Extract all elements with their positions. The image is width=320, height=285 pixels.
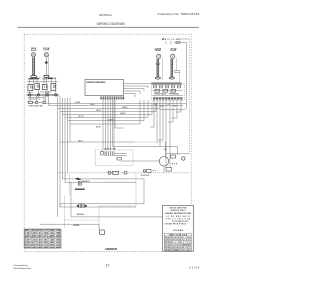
svg-text:18F: 18F (56, 247, 61, 249)
svg-text:LF 8IN: LF 8IN (44, 50, 50, 52)
svg-text:DK BU: DK BU (96, 127, 101, 129)
svg-text:SEE NOTE: SEE NOTE (181, 247, 191, 249)
svg-text:BROWN: BROWN (172, 247, 179, 249)
svg-text:36B YL: 36B YL (78, 141, 83, 143)
svg-text:MTR: MTR (172, 164, 178, 166)
svg-text:NOTED: NOTED (181, 242, 192, 244)
svg-text:2350W: 2350W (43, 48, 50, 50)
svg-text:BR BRN: BR BRN (165, 247, 171, 249)
svg-text:WIRE COLOR CODE: WIRE COLOR CODE (169, 235, 187, 237)
svg-text:GY GRY: GY GRY (165, 245, 171, 247)
svg-text:12E: 12E (49, 240, 54, 242)
svg-text:BAKE EL: BAKE EL (82, 180, 90, 183)
svg-text:14B GY: 14B GY (96, 109, 101, 112)
svg-text:22C OR: 22C OR (78, 116, 84, 118)
svg-text:CLOCKWISE ROT.: CLOCKWISE ROT. (172, 221, 190, 223)
svg-text:LEGEND: LEGEND (173, 230, 184, 232)
svg-text:DOOR SW: DOOR SW (141, 175, 150, 177)
svg-text:ELECTRONIC OVEN CONTROL: ELECTRONIC OVEN CONTROL (86, 82, 106, 84)
svg-text:* Non-Illustrated Parts: * Non-Illustrated Parts (13, 267, 33, 270)
svg-text:LR 6IN: LR 6IN (171, 50, 177, 52)
svg-text:RD1: RD1 (37, 237, 42, 239)
svg-text:1250W: 1250W (170, 48, 177, 50)
svg-text:# Functional Parts: # Functional Parts (13, 264, 29, 267)
svg-text:GN: GN (25, 247, 30, 249)
svg-text:GY: GY (43, 230, 48, 232)
svg-text:RD: RD (161, 106, 163, 108)
svg-text:RECEPTACLE: RECEPTACLE (155, 93, 167, 96)
svg-text:01/04: 01/04 (190, 265, 200, 269)
svg-text:SW LR: SW LR (51, 78, 57, 80)
svg-text:BR: BR (174, 106, 176, 108)
svg-text:BK1: BK1 (25, 237, 30, 239)
svg-text:W WHT: W WHT (165, 240, 171, 242)
svg-text:WH3: WH3 (31, 244, 36, 246)
svg-text:BK2: BK2 (25, 244, 30, 246)
svg-text:OR ORG: OR ORG (165, 249, 172, 251)
svg-text:BR1: BR1 (49, 237, 54, 239)
svg-text:SW LF: SW LF (35, 78, 40, 80)
svg-text:RR 8IN: RR 8IN (155, 50, 161, 52)
svg-text:TERMINAL: TERMINAL (169, 93, 179, 96)
svg-text:BROIL EL: BROIL EL (77, 214, 85, 216)
svg-text:316260703: 316260703 (105, 247, 118, 251)
svg-text:OVEN LIGHT SW: OVEN LIGHT SW (29, 106, 43, 108)
svg-text:GROUND: GROUND (73, 225, 80, 227)
svg-text:wIRING INSTRUCTIONS: wIRING INSTRUCTIONS (165, 213, 192, 215)
svg-text:LO SW MED SW HI: LO SW MED SW HI (166, 216, 191, 218)
svg-text:18E: 18E (43, 247, 48, 249)
svg-text:OTHERWISE: OTHERWISE (181, 245, 191, 247)
svg-text:GY3: GY3 (43, 244, 48, 246)
svg-text:SW RR: SW RR (42, 79, 48, 81)
svg-text:N L1 L2 GND: N L1 L2 GND (165, 39, 182, 41)
svg-text:12F: 12F (31, 247, 36, 249)
svg-text:22A BK: 22A BK (75, 101, 81, 104)
svg-text:22B RD: 22B RD (122, 107, 128, 109)
svg-text:GY2: GY2 (43, 237, 48, 239)
svg-text:105C MIN: 105C MIN (181, 249, 191, 251)
svg-text:KEF355ASH: KEF355ASH (99, 13, 112, 17)
svg-text:36A BR: 36A BR (120, 112, 126, 115)
svg-text:BR2: BR2 (49, 244, 54, 246)
svg-text:WH2: WH2 (31, 237, 36, 239)
svg-text:RF 6IN: RF 6IN (31, 50, 37, 52)
svg-text:BK BLK: BK BLK (165, 237, 172, 239)
svg-text:SW RF: SW RF (28, 79, 33, 81)
svg-text:OR3: OR3 (56, 244, 61, 246)
svg-text:Publication No. 5995441518: Publication No. 5995441518 (158, 12, 200, 16)
svg-text:BK: BK (155, 104, 157, 106)
svg-text:RD2: RD2 (37, 244, 42, 246)
svg-text:WIRING DIAGRAM: WIRING DIAGRAM (97, 22, 125, 26)
svg-text:OR2: OR2 (56, 237, 61, 239)
svg-text:2350W: 2350W (155, 48, 162, 50)
svg-text:17: 17 (106, 264, 110, 268)
svg-text:1250W: 1250W (31, 48, 37, 50)
svg-text:OR: OR (56, 230, 63, 232)
svg-text:UNLESS: UNLESS (181, 240, 191, 242)
svg-text:WHITE: WHITE (172, 240, 179, 242)
svg-text:SHOWN FROM FRONT: SHOWN FROM FRONT (165, 223, 186, 225)
svg-text:RD RED: RD RED (165, 242, 172, 244)
svg-text:WH: WH (31, 230, 36, 232)
